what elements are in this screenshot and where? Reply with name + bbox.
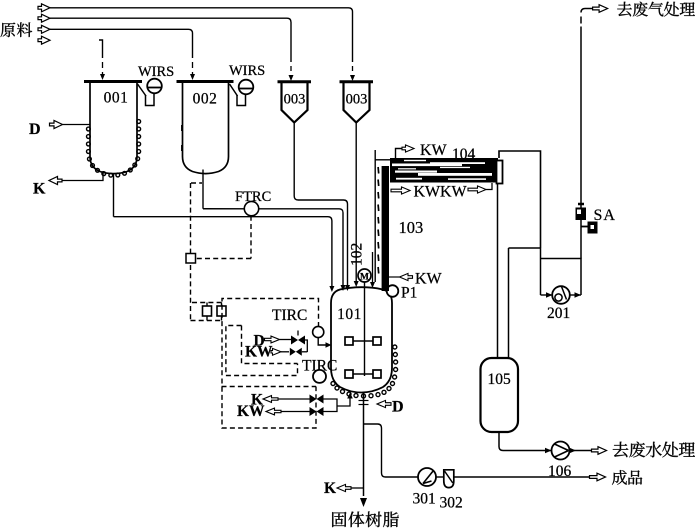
pipe condensate hx to 105 [497, 184, 499, 362]
feed line 1 dashed tail + arrow into 003R [350, 66, 355, 81]
arrow waste gas out [593, 5, 608, 13]
arrow D inlet 001 [50, 121, 63, 129]
tank 002 body [183, 82, 229, 174]
arrow K purge [337, 484, 351, 491]
label D at outlet [392, 399, 404, 416]
bottom solid arrow resin out [360, 498, 367, 507]
arrow into pump 106 [545, 448, 552, 453]
column 103 body [382, 166, 389, 291]
svg-text:K: K [33, 181, 46, 198]
pipe bottom valves header [324, 398, 351, 412]
label KW top [420, 142, 448, 159]
vessel 105 outlet [499, 432, 552, 451]
pipe KW out top [396, 149, 403, 159]
feed line 1 to hopper 003R [50, 8, 353, 62]
riser 102 left wall [374, 150, 376, 282]
pump 201 circle [552, 286, 570, 304]
hopper 003 left body [282, 83, 308, 123]
svg-text:103: 103 [399, 218, 424, 237]
pipe D inlet to 001 [63, 124, 91, 126]
label 102 rotated [349, 243, 366, 266]
feed arrow 2 [38, 14, 50, 22]
svg-text:101: 101 [337, 306, 362, 323]
reflux return line into dome [370, 252, 375, 288]
tank 001 label [104, 90, 129, 107]
arrow into pump 201 [541, 292, 553, 298]
svg-text:KW: KW [440, 184, 468, 201]
arrow KW bottom [266, 408, 281, 415]
feed line 4 to tank 001 [99, 40, 103, 58]
actuator square A1 [203, 303, 212, 321]
hopper 003 left lid [278, 80, 312, 83]
feed line 3 to tank 002 [50, 29, 193, 58]
arrow out of pump 106 [570, 448, 577, 453]
instrument WIRS on tank 002 symbol [230, 80, 254, 106]
label KW at jacket inlet [245, 344, 273, 361]
pipe 003R to reactor [355, 123, 357, 282]
tank 001 lid [84, 80, 142, 83]
actuator square A2 [217, 303, 226, 321]
filter 302 label [440, 495, 463, 512]
svg-text:WIRS: WIRS [138, 64, 174, 80]
tank 001 body [90, 82, 137, 174]
dashed control box lower top edge [222, 386, 317, 388]
pipe 003L to reactor [294, 123, 347, 286]
pipe D to valve V1 [280, 339, 292, 341]
outlet tick marks [359, 401, 369, 405]
pipe 001 outlet [113, 175, 115, 217]
arrow KW into column [389, 273, 413, 280]
instrument WIRS on tank 001 label [138, 64, 174, 80]
agitator upper paddle [345, 337, 381, 345]
arrow product out [590, 473, 606, 481]
feed arrow 4 [38, 36, 50, 44]
arrow K bottom [263, 396, 278, 403]
arrow D into outlet [377, 400, 391, 407]
hx 104 label [452, 146, 476, 163]
pump 201 suction line [540, 248, 542, 295]
svg-text:301: 301 [413, 491, 436, 508]
tank 002 label [193, 91, 218, 108]
hopper 003 right lid [340, 80, 374, 83]
pump 301 label [413, 491, 436, 508]
arrow 001 into dome [329, 286, 334, 292]
instrument P1 label [401, 285, 417, 302]
riser 102 top connect [375, 159, 390, 161]
arrow KW out bottom [391, 187, 410, 194]
arrow KW out top [402, 145, 414, 152]
pump 301 circle [418, 468, 436, 486]
instrument FTRC label [235, 189, 271, 205]
pipe 002 outlet [202, 170, 204, 209]
motor M circle [358, 269, 371, 282]
svg-text:002: 002 [193, 91, 218, 108]
signal TIRC1 to reactor [318, 338, 331, 348]
svg-text:TIRC: TIRC [272, 307, 307, 324]
agitator shaft [364, 282, 366, 376]
instrument TIRC1 label [272, 307, 307, 324]
label K at bottom [324, 480, 336, 497]
pipe KW to valve V4 [281, 411, 310, 413]
reactor 101 jacket bumps [331, 345, 398, 398]
label KW at column [415, 271, 443, 288]
svg-text:K: K [324, 480, 336, 497]
label K at bottom valves [251, 392, 263, 409]
valve V2 [290, 348, 302, 356]
pump 106 label [548, 463, 572, 480]
dashed control box mid [226, 326, 298, 376]
svg-text:KW: KW [237, 403, 265, 420]
pipe 301 to 302 [436, 476, 444, 478]
pipe V2 to header [302, 351, 308, 353]
instrument WIRS on tank 002 label [229, 63, 265, 79]
valve SA [576, 204, 598, 234]
svg-text:105: 105 [488, 371, 512, 388]
arrow KW jacket [271, 348, 281, 355]
signal line FTRC to S1 [196, 258, 251, 260]
svg-text:003: 003 [346, 92, 368, 108]
feed line 2 dashed tail + arrow into 003L [289, 66, 294, 81]
vent line to waste gas [580, 9, 593, 259]
signal line FTRC down [250, 216, 252, 259]
label 成品 (product) [612, 470, 642, 485]
instrument P1 circle [387, 285, 399, 297]
feed line 2 to hopper 003L [50, 18, 291, 62]
dashed control box inner [242, 326, 298, 364]
label D at jacket inlet [254, 333, 265, 350]
pipe duct bottom to 105 [508, 248, 510, 360]
svg-text:104: 104 [452, 146, 476, 163]
arrow D jacket [265, 336, 280, 343]
instrument TIRC1 circle [313, 326, 324, 337]
label SA [594, 207, 616, 224]
hopper 003 left label [284, 92, 306, 108]
tank 002 lid [177, 80, 234, 83]
arrow KW in bottom [468, 186, 486, 193]
arrow 003R into dome [354, 281, 359, 287]
tank 001 jacket bumps [87, 120, 141, 178]
svg-text:KW: KW [414, 184, 442, 201]
pipe branch to pump 301 [364, 424, 419, 477]
hopper 003 right body [344, 83, 370, 123]
reactor outlet pipe [363, 393, 365, 497]
label KWKW bottom [414, 184, 468, 201]
label 去废水处理 (to waste water treatment) [613, 442, 695, 458]
label KW at bottom valves [237, 403, 265, 420]
svg-text:FTRC: FTRC [235, 189, 271, 205]
pipe 001 to reactor [114, 217, 332, 286]
signal line bottom to actuators [191, 320, 223, 322]
pipe 106 to waste water [570, 450, 592, 452]
hx 104 right end cap [497, 161, 503, 184]
vessel 105 body [481, 358, 519, 432]
svg-text:001: 001 [104, 90, 129, 107]
duct vessel outline [499, 151, 541, 248]
reactor 101 shell [331, 287, 392, 392]
label 去废气处理 (to waste gas treatment) [617, 2, 695, 17]
svg-text:302: 302 [440, 495, 463, 512]
valve V4 [310, 407, 324, 416]
motor M letter [360, 273, 369, 283]
feed line 4 dashed tail + arrow into 001 [100, 62, 105, 80]
signal square node S1 [186, 254, 196, 264]
svg-text:106: 106 [548, 463, 572, 480]
pump 201 loop lines [541, 259, 582, 296]
feed arrow 1 (top) [38, 4, 50, 12]
hopper 003 right label [346, 92, 368, 108]
arrow K drain 001 [49, 177, 62, 185]
pump 201 label [547, 305, 570, 322]
svg-text:WIRS: WIRS [229, 63, 265, 79]
pipe 302 to product [454, 476, 590, 478]
pipe V1 to header [305, 340, 307, 352]
signal line vertical from 002 [190, 183, 192, 321]
signal line upper to actuators [192, 302, 222, 304]
svg-text:201: 201 [547, 305, 570, 322]
pipe 002 to reactor via FTRC [203, 209, 343, 285]
svg-text:KW: KW [420, 142, 448, 159]
pipe K to valve V3 [278, 398, 310, 400]
svg-text:KW: KW [415, 271, 443, 288]
riser 102 internal hatch [377, 167, 380, 274]
label 原料 (raw material) [1, 22, 33, 37]
svg-text:D: D [392, 399, 404, 416]
hx 104 shell [390, 158, 498, 183]
filter 302 [444, 470, 454, 488]
svg-text:KW: KW [245, 344, 273, 361]
feed line 3 dashed tail + arrow into 002 [190, 62, 195, 80]
svg-text:102: 102 [349, 243, 366, 266]
label 固体树脂 (solid resin) [332, 511, 399, 527]
instrument FTRC circle [244, 201, 258, 215]
pipe KW in bottom to hx [486, 183, 492, 190]
instrument TIRC2 label [302, 358, 337, 375]
valve V3 [310, 395, 324, 404]
svg-text:003: 003 [284, 92, 306, 108]
svg-text:M: M [360, 273, 369, 283]
arrow into reactor bottom [347, 393, 353, 399]
tank 002 side marks [181, 125, 183, 151]
instrument WIRS on tank 001 symbol [138, 79, 162, 106]
valve V1 [291, 331, 305, 345]
feed arrow 3 [38, 25, 50, 33]
reactor 101 label [337, 306, 362, 323]
arrow 003L into dome [345, 285, 350, 291]
column 103 label [399, 218, 424, 237]
label K at 001 [33, 181, 46, 198]
pump 106 circle [552, 442, 570, 460]
pipe K purge at bottom [351, 487, 364, 489]
dashed control box outer [222, 299, 319, 429]
pipe K drain from 001 [61, 171, 103, 181]
vessel 105 label [488, 371, 512, 388]
arrow 002 into dome [341, 285, 346, 291]
arrow waste water out [592, 447, 607, 455]
label D at 001 [29, 121, 41, 138]
agitator lower paddle [345, 370, 381, 378]
arrow out of pump 201 [570, 292, 582, 298]
signal line tap at 002 outlet [191, 182, 202, 184]
hx 104 tube streaks [392, 160, 492, 180]
instrument TIRC2 circle [313, 370, 326, 383]
pipe KW to valve V2 [281, 351, 289, 353]
svg-text:D: D [29, 121, 41, 138]
svg-text:SA: SA [594, 207, 616, 224]
